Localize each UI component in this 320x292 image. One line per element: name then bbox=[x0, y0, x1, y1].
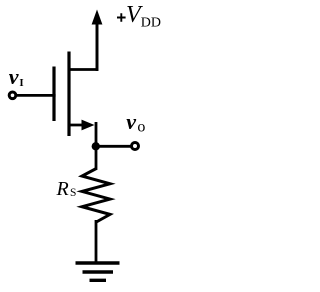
svg-text:S: S bbox=[70, 187, 76, 199]
wire resistor to ground bbox=[95, 220, 98, 263]
svg-text:v: v bbox=[126, 109, 136, 134]
output terminal circle bbox=[132, 143, 139, 150]
input terminal circle bbox=[9, 92, 16, 99]
wire drain lead bbox=[68, 22, 97, 70]
svg-text:DD: DD bbox=[141, 16, 161, 31]
wire node to output bbox=[96, 145, 131, 148]
label +VDD bbox=[117, 2, 161, 31]
transistor Q1 source lead with arrow bbox=[69, 120, 95, 131]
svg-text:R: R bbox=[56, 178, 69, 200]
svg-text:o: o bbox=[137, 119, 145, 136]
svg-text:I: I bbox=[19, 77, 23, 89]
resistor RS zigzag bbox=[82, 169, 110, 223]
label RS bbox=[56, 178, 77, 200]
svg-text:v: v bbox=[9, 64, 19, 89]
ground symbol bbox=[76, 263, 120, 280]
label vo bbox=[126, 109, 145, 135]
transistor Q1 channel bar bbox=[67, 52, 70, 137]
wire source down to resistor bbox=[95, 122, 98, 170]
node junction dot bbox=[92, 142, 100, 150]
label vI bbox=[9, 64, 24, 89]
transistor Q1 gate bar bbox=[52, 67, 55, 122]
power supply arrow to +VDD bbox=[92, 10, 103, 72]
wire gate lead bbox=[15, 94, 56, 97]
